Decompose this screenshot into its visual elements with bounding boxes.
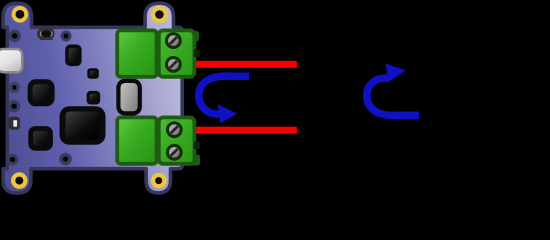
mounting hole H4 (bottom-right, yellow pad): [151, 173, 167, 189]
LED D2 (white window): [9, 117, 20, 130]
capacitor C1 (silver box): [118, 81, 139, 114]
TB2 body box: [117, 117, 156, 163]
motor controller board U1 (PCB with mounting ears): [3, 3, 182, 193]
arrow A1 (blue, current direction loop): [199, 76, 249, 123]
TB1 screw housing: [159, 30, 195, 76]
terminal block TB1 (motor output A): [117, 30, 200, 76]
USB connector J1: [0, 49, 22, 72]
wire W1 (red, motor lead A): [192, 61, 297, 68]
arrow A2 (blue, motor rotation direction): [367, 64, 419, 116]
chip U6: [28, 126, 53, 151]
chip U7 (large MCU): [60, 106, 106, 145]
TB2 screw housing: [159, 117, 195, 163]
via V3: [7, 154, 19, 166]
mounting hole H2 (top-right, yellow pad): [151, 6, 168, 23]
TB2 screw S4: [166, 144, 183, 161]
chip U3: [28, 79, 55, 106]
via V5: [8, 100, 20, 112]
TB1 latch nub: [190, 31, 199, 42]
via V2: [8, 30, 21, 43]
TB2 link: [154, 118, 161, 164]
wire W2 (red, motor lead B): [192, 127, 297, 134]
TB1 screw S2: [165, 56, 182, 73]
chip U5: [87, 91, 101, 105]
TB1 link: [154, 31, 161, 77]
LED D1 (pad below USB): [9, 82, 21, 94]
chip U4: [87, 68, 99, 79]
mounting hole H1 (top-left, yellow pad): [12, 6, 29, 23]
TB2 latch nub: [190, 155, 200, 166]
TB1 screw S1: [165, 32, 182, 49]
mounting hole H3 (bottom-left, yellow pad): [11, 172, 28, 189]
TB2 side notch: [194, 142, 200, 149]
TB1 body box: [117, 30, 156, 76]
chip U2: [65, 45, 81, 67]
TB1 side notch: [194, 50, 200, 57]
terminal block TB2 (motor output B): [117, 117, 200, 165]
via V4: [59, 153, 72, 166]
via V1: [61, 31, 72, 42]
component Y1 (oval can): [37, 28, 55, 40]
TB2 screw S3: [166, 121, 183, 138]
